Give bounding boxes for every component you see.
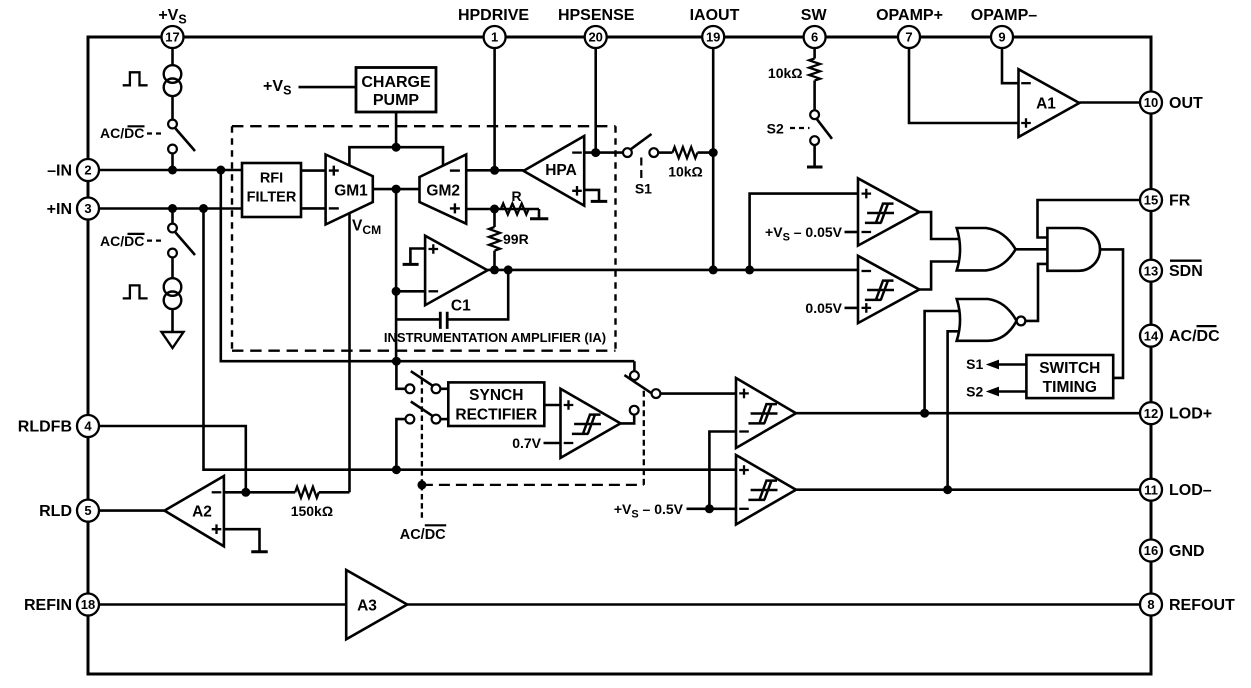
svg-text:AC/DC: AC/DC	[1169, 328, 1220, 345]
svg-text:AC/DC: AC/DC	[400, 527, 446, 543]
svg-text:RECTIFIER: RECTIFIER	[455, 406, 537, 423]
svg-text:RLD: RLD	[39, 503, 72, 520]
svg-text:A2: A2	[192, 504, 212, 521]
svg-text:20: 20	[588, 30, 602, 45]
svg-text:HPSENSE: HPSENSE	[558, 7, 635, 24]
svg-text:RLDFB: RLDFB	[18, 419, 72, 436]
svg-text:–IN: –IN	[47, 163, 72, 180]
svg-text:A3: A3	[357, 598, 377, 615]
svg-text:S2: S2	[966, 384, 983, 400]
svg-text:C1: C1	[451, 297, 471, 314]
svg-text:S1: S1	[966, 356, 983, 372]
svg-text:SWITCH: SWITCH	[1039, 360, 1100, 377]
svg-text:A1: A1	[1036, 96, 1056, 113]
svg-text:0.7V: 0.7V	[512, 435, 541, 451]
svg-text:S1: S1	[635, 181, 652, 197]
svg-text:10: 10	[1144, 95, 1158, 110]
svg-text:150kΩ: 150kΩ	[291, 503, 333, 519]
svg-text:FR: FR	[1169, 193, 1191, 210]
svg-text:AC/DC: AC/DC	[100, 233, 144, 249]
svg-text:FILTER: FILTER	[247, 189, 297, 205]
svg-text:S2: S2	[767, 120, 784, 136]
svg-text:RFI: RFI	[260, 170, 283, 186]
svg-text:INSTRUMENTATION AMPLIFIER (IA): INSTRUMENTATION AMPLIFIER (IA)	[384, 330, 606, 345]
svg-text:LOD–: LOD–	[1169, 482, 1212, 499]
svg-text:8: 8	[1147, 597, 1154, 612]
svg-text:15: 15	[1144, 193, 1158, 208]
svg-text:IAOUT: IAOUT	[690, 7, 740, 24]
svg-text:PUMP: PUMP	[373, 92, 420, 109]
svg-text:CHARGE: CHARGE	[361, 74, 431, 91]
svg-text:GM1: GM1	[334, 182, 368, 199]
svg-text:11: 11	[1144, 482, 1158, 497]
svg-text:TIMING: TIMING	[1043, 379, 1097, 396]
svg-text:1: 1	[491, 30, 498, 45]
svg-text:4: 4	[84, 419, 92, 434]
svg-text:10kΩ: 10kΩ	[668, 163, 703, 179]
svg-text:R: R	[511, 188, 521, 204]
svg-text:0.05V: 0.05V	[805, 300, 842, 316]
svg-text:12: 12	[1144, 406, 1158, 421]
svg-text:OPAMP–: OPAMP–	[971, 7, 1037, 24]
svg-text:3: 3	[84, 201, 91, 216]
svg-text:GND: GND	[1169, 543, 1205, 560]
svg-text:7: 7	[905, 30, 912, 45]
svg-text:HPDRIVE: HPDRIVE	[458, 7, 529, 24]
svg-text:SW: SW	[801, 7, 828, 24]
svg-text:SYNCH: SYNCH	[469, 387, 523, 404]
svg-text:9: 9	[998, 30, 1005, 45]
svg-text:17: 17	[165, 30, 179, 45]
svg-text:5: 5	[84, 503, 91, 518]
svg-text:OUT: OUT	[1169, 95, 1203, 112]
svg-text:16: 16	[1144, 543, 1158, 558]
svg-text:18: 18	[81, 597, 95, 612]
svg-text:AC/DC: AC/DC	[100, 125, 144, 141]
svg-text:+IN: +IN	[47, 201, 72, 218]
svg-text:14: 14	[1144, 328, 1159, 343]
svg-text:10kΩ: 10kΩ	[768, 65, 803, 81]
svg-text:2: 2	[84, 163, 91, 178]
svg-text:GM2: GM2	[426, 182, 460, 199]
svg-text:99R: 99R	[503, 231, 529, 247]
svg-text:HPA: HPA	[545, 162, 577, 179]
svg-text:REFOUT: REFOUT	[1169, 597, 1235, 614]
svg-text:19: 19	[706, 30, 720, 45]
svg-text:6: 6	[811, 30, 818, 45]
svg-text:SDN: SDN	[1169, 263, 1203, 280]
svg-text:LOD+: LOD+	[1169, 406, 1212, 423]
svg-text:OPAMP+: OPAMP+	[876, 7, 943, 24]
svg-text:REFIN: REFIN	[24, 597, 72, 614]
svg-text:13: 13	[1144, 263, 1158, 278]
